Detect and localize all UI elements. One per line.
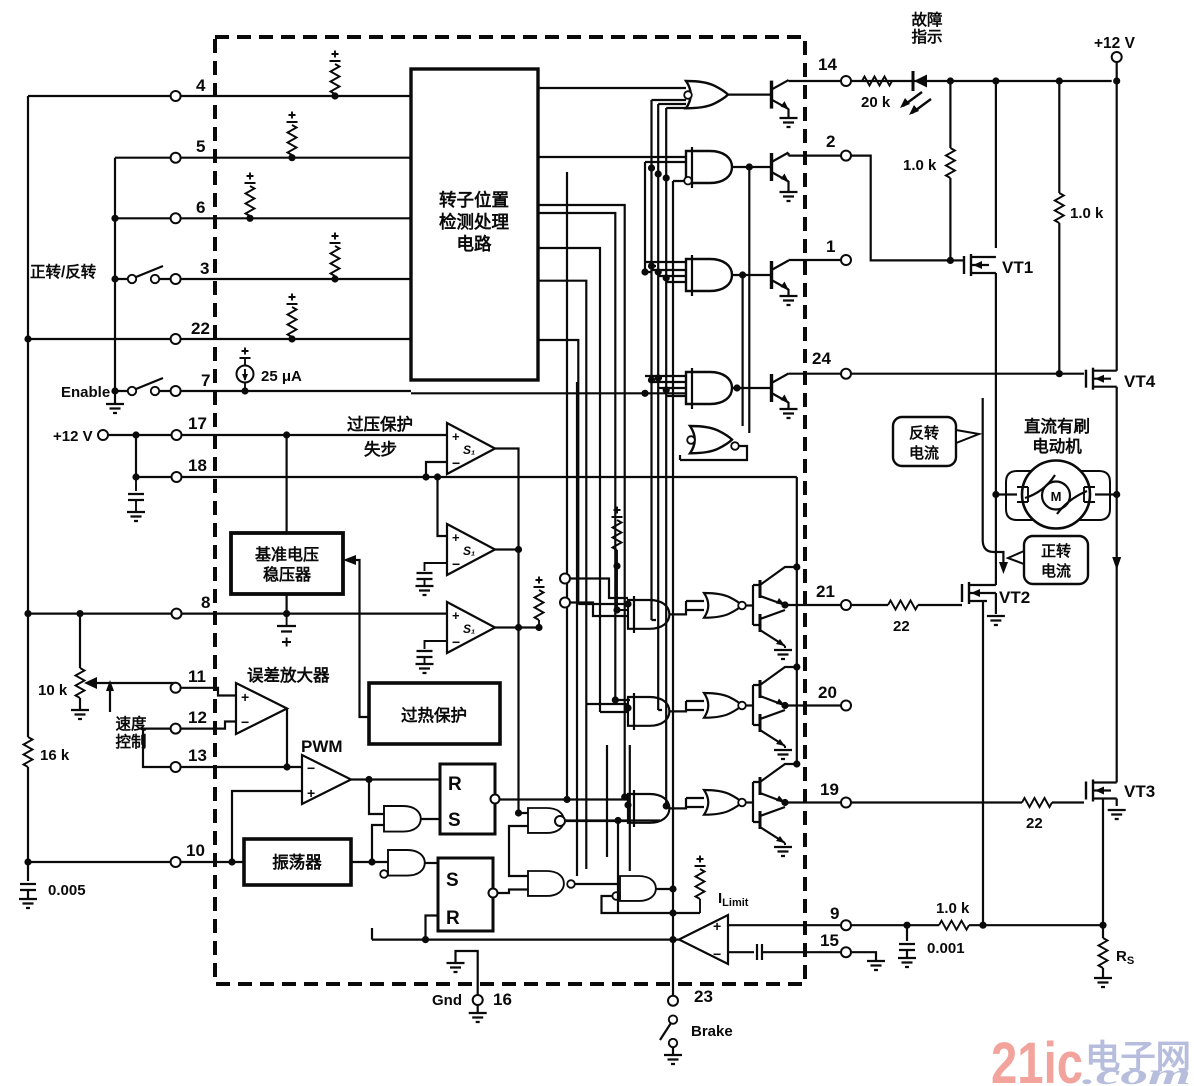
wire ref box top to pin17: [286, 435, 288, 533]
wire pin5 row: [115, 157, 411, 159]
wire pin11 to erramp plus: [180, 688, 236, 696]
svg-text:24: 24: [812, 349, 831, 368]
arrowhead right rail current: [1112, 557, 1121, 570]
terminal pin9: [841, 920, 851, 930]
wire pad B feed: [570, 603, 628, 617]
svg-text:正转: 正转: [1041, 542, 1071, 560]
terminal pin14: [841, 76, 851, 86]
resistor 20k pin14: [862, 77, 892, 86]
node and21 input dots: [613, 600, 631, 613]
svg-text:1: 1: [826, 237, 835, 256]
resistor pullup pin22: [287, 294, 298, 343]
block U-ROT rotor position detect/process circuit box: [411, 69, 538, 380]
wire and20 inputs from left: [586, 704, 628, 712]
label DC brushed motor: [1024, 416, 1090, 456]
svg-text:−: −: [452, 634, 460, 650]
svg-text:13: 13: [188, 746, 207, 765]
node osc out junction: [368, 858, 375, 865]
svg-text:−: −: [452, 556, 460, 572]
resistor 22 pin19: [1022, 798, 1084, 807]
wire pin8 row: [28, 612, 447, 614]
node +12v junction: [132, 431, 139, 438]
resistor 1.0k right: [1055, 81, 1064, 377]
comparator U-OV1: [447, 423, 495, 474]
wire NAND-A out: [564, 821, 660, 914]
svg-text:PWM: PWM: [301, 737, 343, 756]
switch S1 forward/reverse: [128, 266, 163, 283]
block reference voltage regulator box: [231, 533, 343, 594]
wire pin13 row to PWM minus: [180, 766, 302, 768]
gate AND row20: [628, 693, 669, 730]
svg-text:16: 16: [493, 990, 512, 1009]
terminal pin16 Gnd: [473, 995, 483, 1005]
arrowhead reverse current: [999, 562, 1008, 574]
wire pin10 riser to PWM plus: [232, 791, 302, 862]
svg-text:VT4: VT4: [1124, 372, 1156, 391]
terminal pin7: [171, 386, 181, 396]
motor M1: [992, 461, 1120, 529]
svg-text:VT2: VT2: [999, 588, 1030, 607]
gate OR row14: [684, 81, 728, 108]
terminal pin4: [171, 91, 181, 101]
wire pin7 long row into gates: [411, 392, 686, 394]
node bus dots pin24 gate: [641, 374, 669, 397]
wire rotor box output row C: [538, 205, 630, 797]
gate NAND-B after FF2: [528, 871, 575, 896]
svg-text:21: 21: [816, 582, 835, 601]
resistor pullup pin4: [330, 51, 341, 100]
svg-text:S₁: S₁: [463, 544, 475, 558]
current source 25uA on pin7: [237, 348, 254, 395]
gate NOR row21: [704, 593, 746, 618]
wire pin20 row: [785, 704, 841, 706]
node pin18 cap junction: [132, 473, 139, 480]
svg-text:基准电压: 基准电压: [254, 545, 319, 564]
terminal test pad B: [560, 598, 570, 608]
node pot top junction: [76, 610, 83, 617]
switch brake: [660, 1015, 677, 1055]
terminal pin11: [171, 683, 181, 693]
node and20 input dots: [612, 696, 632, 711]
svg-text:S: S: [446, 870, 459, 891]
terminal pin22: [171, 334, 181, 344]
capacitor ILimit minus input: [728, 944, 841, 960]
transistor VT4 mosfet: [1086, 362, 1117, 495]
svg-text:4: 4: [196, 76, 206, 95]
resistor pullup pin5: [287, 112, 298, 162]
wire rotor box output row D: [538, 213, 630, 700]
wire ILimit plus input to pin9: [728, 924, 841, 926]
terminal +12V left: [98, 430, 108, 440]
svg-text:16 k: 16 k: [40, 747, 70, 764]
svg-text:S: S: [448, 810, 461, 831]
wire pin3 row: [115, 278, 411, 280]
svg-text:+12 V: +12 V: [1094, 35, 1136, 52]
svg-text:M: M: [1051, 489, 1062, 504]
wire junction 749 riser down: [748, 167, 750, 433]
terminal pin17: [172, 430, 182, 440]
svg-text:Brake: Brake: [691, 1023, 733, 1040]
node ref box top junction: [283, 431, 290, 438]
wire FF1 Q bus riser: [566, 172, 568, 800]
node RS top junction: [1099, 922, 1106, 929]
terminal pin18: [172, 472, 182, 482]
svg-text:18: 18: [188, 456, 207, 475]
gate NAND-C brake: [612, 876, 655, 901]
gate NOR row20: [704, 693, 746, 718]
wire osc junction up to G1 lower input: [372, 825, 384, 862]
capacitor 0.005 bottom left: [19, 862, 37, 908]
gate NAND-A after FF1: [528, 808, 564, 833]
terminal pin23: [668, 996, 678, 1006]
svg-text:VT3: VT3: [1124, 782, 1155, 801]
node pin22 junction left: [24, 335, 31, 342]
svg-text:转子位置: 转子位置: [439, 190, 509, 210]
terminal pin10: [171, 857, 181, 867]
terminal test pad C: [555, 816, 565, 826]
svg-text:22: 22: [1026, 815, 1043, 832]
svg-text:+: +: [452, 530, 460, 545]
wire comp bus into NAND-A input: [509, 813, 528, 876]
block oscillator box: [244, 839, 351, 885]
node NAND-C out junction: [669, 885, 676, 892]
node sense gate junction: [979, 922, 986, 929]
wire pin10 row: [28, 861, 244, 863]
terminal pin20: [841, 701, 851, 711]
svg-text:失步: 失步: [364, 439, 397, 459]
wire pin2 row: [789, 156, 951, 261]
gate AND row1: [645, 255, 732, 296]
capacitor comp2 minus ref: [416, 563, 448, 595]
callout reverse current: [893, 417, 979, 466]
svg-text:−: −: [713, 946, 721, 962]
svg-text:11: 11: [188, 667, 206, 686]
svg-text:10 k: 10 k: [38, 682, 68, 699]
svg-text:25 μA: 25 μA: [261, 368, 302, 385]
gate AND row19: [628, 790, 669, 827]
svg-text:检测处理: 检测处理: [439, 212, 509, 232]
svg-text:1.0 k: 1.0 k: [936, 900, 970, 917]
terminal test pad A: [560, 574, 570, 584]
node pin8 left junction: [24, 610, 31, 617]
transistor pair row21: [746, 567, 797, 659]
node and19 input dots: [621, 793, 670, 809]
svg-text:+: +: [241, 689, 249, 705]
svg-text:+: +: [307, 785, 315, 801]
transistor VT1 mosfet: [950, 254, 996, 495]
node comp3 out junction: [515, 624, 522, 631]
resistor pullup pin3: [330, 233, 341, 283]
wire pin9 net to sense node: [851, 924, 1103, 926]
node pin3 junction: [111, 275, 118, 282]
svg-text:+12 V: +12 V: [53, 428, 93, 445]
wire bus b1: [652, 100, 687, 620]
svg-text:0.005: 0.005: [48, 882, 86, 899]
terminal pin5: [171, 153, 181, 163]
gate AND row21: [628, 596, 669, 633]
svg-text:R: R: [448, 774, 462, 795]
terminal pin24: [841, 369, 851, 379]
wire pin15 to ground: [851, 952, 876, 961]
node FF1 Q bus junction: [563, 796, 570, 803]
svg-text:2: 2: [826, 132, 835, 151]
node and24 out junction: [733, 384, 740, 391]
terminal pin1: [841, 255, 851, 265]
node pin10 left junction: [24, 858, 31, 865]
wire pin18 row: [136, 435, 797, 477]
wire VT1 drain rail: [995, 81, 997, 248]
wire pin6 row: [115, 217, 411, 219]
node NAND-A out corner: [614, 817, 621, 824]
ground below brake: [664, 1055, 682, 1064]
resistor pullup ILimit: [695, 856, 706, 914]
svg-text:7: 7: [201, 371, 210, 390]
svg-text:电路: 电路: [457, 234, 492, 254]
svg-text:反转: 反转: [909, 424, 939, 442]
svg-text:9: 9: [830, 904, 839, 923]
wire pin12 loop to pin13: [143, 729, 171, 767]
wire left inner bus enable net: [114, 158, 116, 391]
terminal +12V top right: [1112, 52, 1122, 85]
node pin10 riser junction: [228, 858, 235, 865]
wire pin7 row: [115, 390, 411, 392]
terminal pin12: [171, 724, 181, 734]
svg-text:Gnd: Gnd: [432, 992, 462, 1009]
wire pin1 row: [789, 259, 842, 261]
svg-text:−: −: [241, 714, 249, 730]
resistor RS: [1094, 925, 1112, 987]
node NAND-A input junction: [515, 809, 522, 816]
svg-text:22: 22: [191, 319, 210, 338]
svg-text:20: 20: [818, 683, 837, 702]
transistor Q24: [772, 374, 798, 419]
wire FF1 Q output row: [500, 798, 631, 800]
arrowhead into ref box: [343, 555, 356, 565]
LED fault: [900, 71, 931, 115]
svg-text:S₁: S₁: [463, 443, 475, 457]
op-amp PWM comparator: [302, 755, 351, 804]
terminal pin2: [841, 151, 851, 161]
wire pin12 to erramp minus: [180, 722, 236, 729]
svg-text:控制: 控制: [115, 732, 146, 751]
node 1.0k2 top junction: [1056, 77, 1063, 84]
terminal pin6: [171, 213, 181, 223]
gate G2 and to FF2 S: [380, 850, 425, 878]
transistor Q2: [772, 153, 798, 202]
svg-text:20 k: 20 k: [861, 94, 891, 111]
resistor pullup mid bus: [612, 507, 629, 611]
flip-flop FF2 SR latch: [438, 858, 498, 931]
wire pin19 row: [785, 801, 1022, 803]
node FF2 R junction: [422, 936, 429, 943]
wire rotor box output row F: [538, 340, 628, 604]
svg-text:S₁: S₁: [463, 622, 475, 636]
wire brake rail vertical: [672, 740, 674, 996]
resistor 22 pin21: [888, 601, 962, 610]
svg-text:故障: 故障: [911, 10, 943, 29]
svg-text:Enable: Enable: [61, 384, 110, 401]
gate AND row2: [684, 147, 732, 188]
wire comparator output bus: [495, 449, 539, 814]
svg-text:电流: 电流: [1041, 562, 1071, 580]
wire left outer bus: [27, 96, 29, 862]
wire PWM out to FF1 R: [351, 778, 440, 780]
node comp1 minus junction: [422, 473, 429, 480]
resistor 1.0k sense: [939, 921, 969, 930]
wire +12V rail right: [1116, 81, 1118, 362]
svg-text:电动机: 电动机: [1032, 436, 1082, 456]
resistor 1.0k below LED: [946, 81, 955, 264]
node enable junction: [111, 387, 118, 394]
wire comp2 plus to pin18 line: [438, 477, 448, 536]
node and1 out junction: [739, 271, 746, 278]
wire and2 out to Q2 base: [732, 166, 772, 168]
label speed control: [106, 680, 147, 751]
wire junction 742 riser down: [741, 275, 743, 426]
wire rotor box output row A: [538, 87, 686, 89]
svg-text:6: 6: [196, 198, 205, 217]
svg-text:过热保护: 过热保护: [401, 705, 467, 725]
svg-text:10: 10: [186, 841, 205, 860]
svg-text:14: 14: [818, 55, 837, 74]
svg-text:稳压器: 稳压器: [263, 565, 312, 584]
wire rotor box output row G: [538, 248, 600, 712]
svg-text:23: 23: [694, 987, 713, 1006]
label fault indication: [911, 10, 943, 46]
wire bus t2: [606, 745, 608, 857]
node rail row20: [793, 663, 800, 670]
terminal pin21: [841, 600, 851, 610]
wire NAND-C out to brake rail: [656, 888, 673, 890]
wire and21 to nor21: [669, 601, 704, 614]
wire rotor box output row E: [538, 281, 586, 869]
resistor 16k lower left: [24, 737, 33, 767]
wire pin17 row: [108, 434, 447, 436]
wire and19 to nor19: [669, 798, 704, 808]
transistor pair row19: [746, 764, 797, 856]
wire and20 to nor20: [669, 701, 704, 711]
terminal pin13: [171, 762, 181, 772]
comparator U-OV2: [447, 524, 495, 575]
node ILimit out on brake rail: [669, 936, 676, 943]
svg-text:0.001: 0.001: [927, 940, 965, 957]
wire PWM out down to gate G1: [369, 780, 384, 815]
terminal pin8: [172, 609, 182, 619]
IC dashed boundary box: [215, 37, 805, 984]
wire pin22 row: [28, 338, 411, 340]
resistor pullup pin6: [245, 173, 256, 222]
wire FF2 R input from ILimit: [372, 916, 679, 940]
transistor pair row20: [746, 667, 797, 759]
wire bus b2: [658, 104, 686, 710]
wire rotor box output row B: [538, 156, 686, 158]
svg-text:1.0 k: 1.0 k: [903, 157, 937, 174]
svg-text:19: 19: [820, 780, 839, 799]
svg-text:8: 8: [201, 593, 210, 612]
svg-text:1.0 k: 1.0 k: [1070, 205, 1104, 222]
wire pin24 row: [789, 373, 1085, 375]
capacitor comp3 minus ref: [416, 641, 448, 673]
node comp2 plus junction: [434, 473, 441, 480]
switch S2 enable: [128, 378, 163, 395]
ground pin15: [867, 961, 885, 970]
wire bus b4: [673, 181, 686, 740]
wire G2 out to FF2 S: [425, 862, 438, 864]
wire bus b5 feed and2: [645, 162, 686, 272]
wire rail segment top: [796, 477, 798, 763]
wire and24 out to Q24 base: [732, 387, 772, 389]
transistor VT3 mosfet: [1086, 772, 1126, 926]
gate NOR row19: [704, 790, 746, 815]
svg-text:21ic: 21ic: [991, 1031, 1083, 1086]
node bus dots pin1 gate: [641, 262, 669, 281]
terminal pin19: [841, 798, 851, 808]
wire pad C feed: [565, 820, 628, 822]
svg-text:直流有刷: 直流有刷: [1024, 416, 1090, 436]
gate NOR feedback: [687, 426, 739, 453]
svg-text:VT1: VT1: [1002, 258, 1033, 277]
wire and1 out to Q1 base: [732, 274, 772, 276]
node LED cathode junction: [947, 77, 954, 84]
wire bus t1: [576, 382, 578, 876]
ground below enable switch: [106, 391, 124, 413]
svg-text:振荡器: 振荡器: [272, 852, 322, 872]
svg-text:3: 3: [200, 259, 209, 278]
wire reverse current arrow line: [983, 398, 1004, 568]
transistor Q14: [772, 80, 798, 127]
svg-text:−: −: [307, 760, 315, 776]
ground below pin16: [469, 1005, 487, 1022]
wire pin4 row: [28, 95, 411, 97]
svg-text:−: −: [452, 455, 460, 471]
svg-text:.com: .com: [1082, 1058, 1191, 1086]
svg-text:+: +: [452, 429, 460, 444]
op-amp current limit comparator: [679, 915, 728, 964]
node rail row21: [793, 563, 800, 570]
svg-text:+: +: [452, 608, 460, 623]
svg-text:指示: 指示: [911, 27, 942, 46]
svg-text:5: 5: [196, 137, 205, 156]
svg-text:正转/反转: 正转/反转: [30, 262, 97, 281]
potentiometer 10k: [71, 614, 176, 719]
flip-flop FF1 RS latch: [440, 764, 500, 834]
node ref box bottom junction: [283, 610, 290, 617]
wire erramp out down to pin13 node: [286, 709, 288, 768]
wire osc out row: [351, 861, 388, 863]
wire comp1 minus to pin18 line: [426, 462, 447, 477]
node 0.001 junction: [903, 922, 910, 929]
node pin13 junction: [283, 763, 290, 770]
wire right rail motor to VT3: [1116, 495, 1118, 772]
wire thermal protection to ref box arrow: [349, 560, 369, 717]
transistor Q1: [772, 260, 798, 305]
wire bus t3: [629, 745, 631, 871]
wire NAND-C bubble L feed: [602, 896, 701, 913]
node bus dots pin2 gate: [648, 164, 670, 181]
ground marker ref below pin8: [277, 614, 296, 647]
node PWM out junction: [365, 776, 372, 783]
callout forward current: [1008, 536, 1088, 584]
wire pin14 row: [789, 80, 1112, 82]
node rail row19: [793, 760, 800, 767]
wire pad A feed: [570, 579, 628, 599]
gate G1 and to FF1 S: [384, 806, 421, 832]
svg-text:过压保护: 过压保护: [347, 414, 413, 434]
transistor VT2 mosfet: [962, 582, 1005, 925]
svg-text:12: 12: [188, 708, 207, 727]
svg-text:电流: 电流: [909, 444, 939, 462]
terminal pin15: [841, 947, 851, 957]
